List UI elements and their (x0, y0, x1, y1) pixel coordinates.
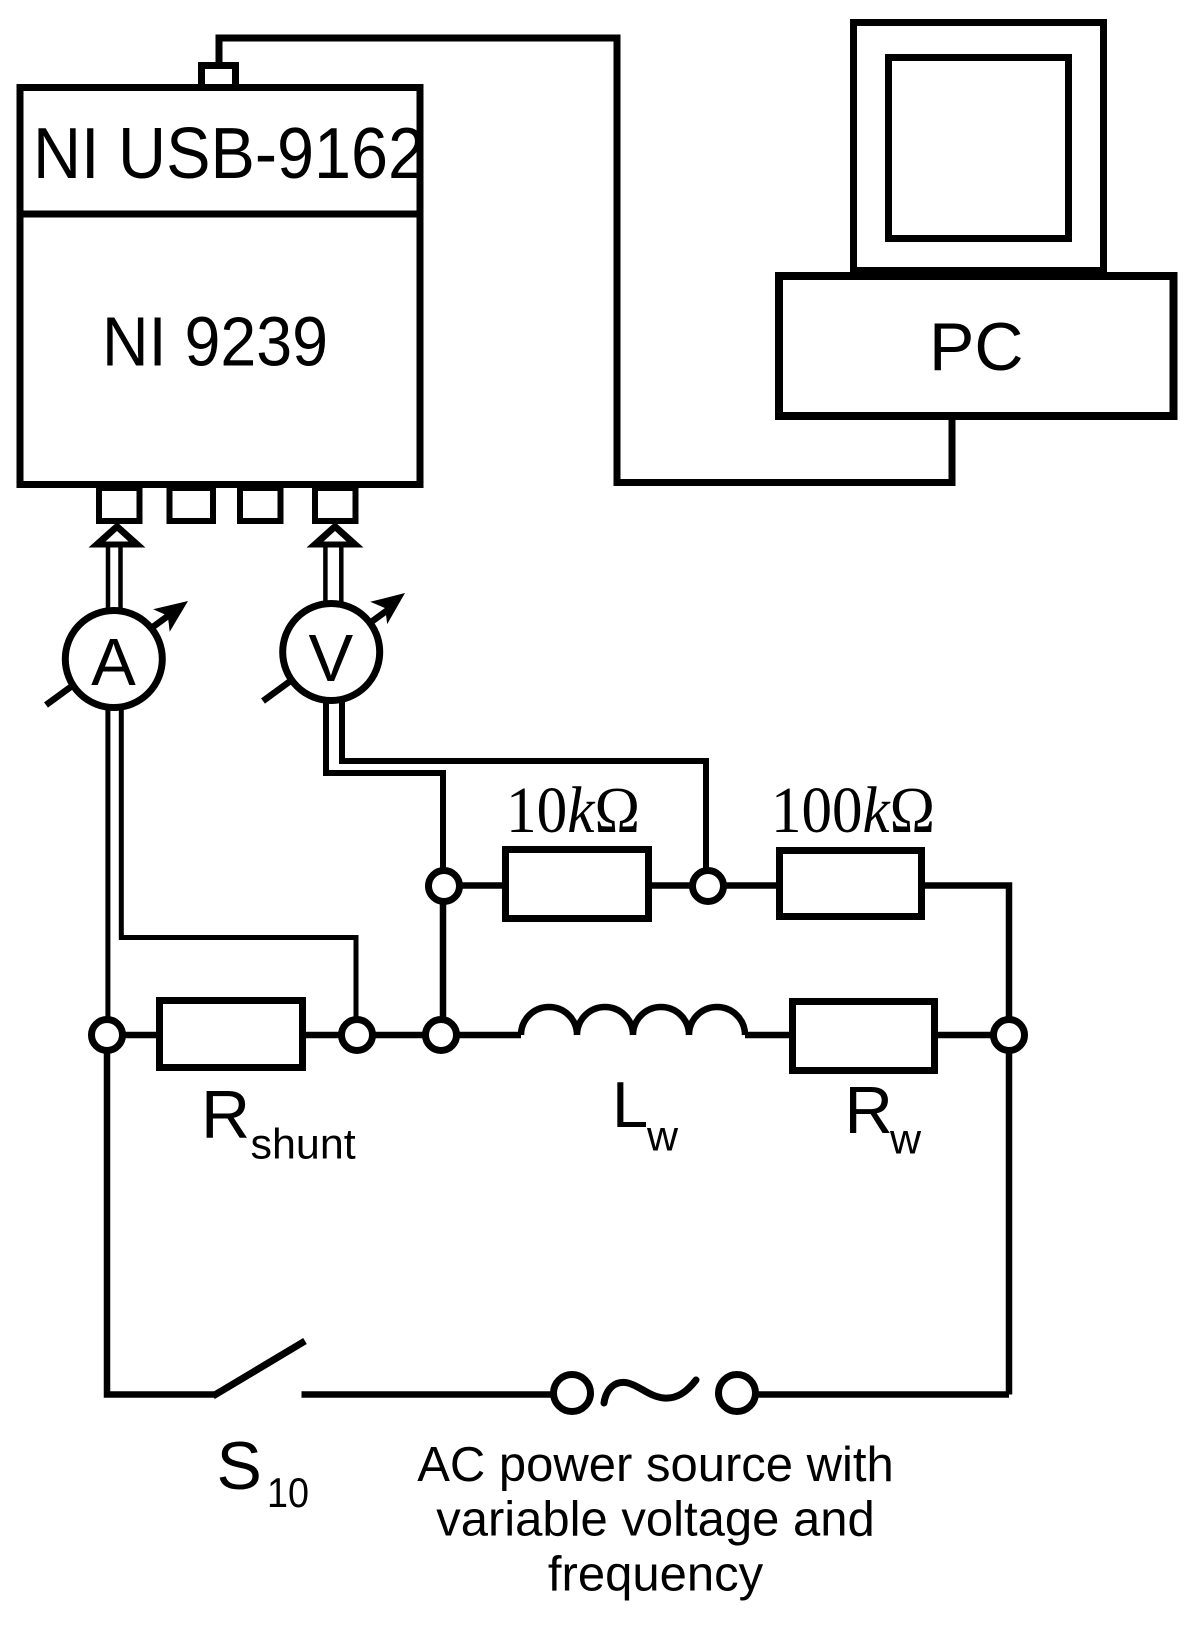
svg-text:100kΩ: 100kΩ (771, 774, 935, 847)
svg-text:NI USB-9162: NI USB-9162 (33, 114, 425, 194)
svg-text:A: A (91, 625, 136, 700)
svg-text:R: R (845, 1073, 893, 1148)
svg-text:w: w (889, 1116, 922, 1164)
svg-text:L: L (612, 1068, 648, 1141)
svg-text:NI 9239: NI 9239 (102, 303, 328, 381)
svg-text:AC power source with: AC power source with (417, 1438, 894, 1492)
svg-text:S: S (217, 1428, 262, 1504)
svg-text:V: V (308, 621, 353, 696)
svg-text:w: w (646, 1113, 679, 1161)
svg-text:variable voltage and: variable voltage and (436, 1493, 875, 1547)
svg-text:PC: PC (929, 309, 1023, 385)
svg-text:10: 10 (267, 1469, 309, 1516)
svg-text:shunt: shunt (251, 1121, 356, 1169)
svg-text:frequency: frequency (548, 1548, 764, 1602)
svg-text:10kΩ: 10kΩ (506, 774, 640, 847)
svg-text:R: R (201, 1077, 250, 1153)
